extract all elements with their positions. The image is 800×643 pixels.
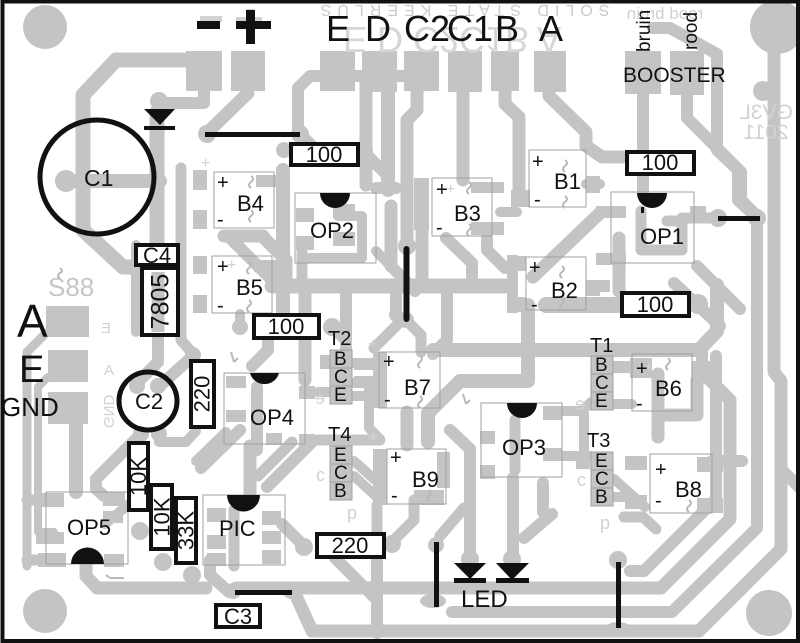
- pad B3 left bar: [414, 178, 429, 230]
- pad connector C2: [404, 51, 439, 91]
- pad B8 left top: [625, 456, 647, 470]
- svg-text:c: c: [316, 465, 325, 485]
- svg-text:BOOSTER: BOOSTER: [623, 64, 726, 87]
- pad T3 E left: [576, 456, 590, 469]
- pad line1 right: [291, 125, 309, 143]
- pad B9 bottom: [414, 490, 444, 505]
- resistor 100 left: [254, 314, 319, 339]
- wire B9 to LED vertical: [450, 430, 470, 550]
- wire pad C1 down: [457, 91, 470, 180]
- outline T4 E box: [330, 446, 352, 464]
- wire vline pad elbow: [406, 320, 421, 352]
- svg-text:E: E: [101, 320, 111, 337]
- outline B7: [379, 352, 440, 408]
- svg-text:A: A: [17, 295, 48, 347]
- squiggle arrow OP4: [231, 352, 238, 362]
- svg-text:B6: B6: [655, 376, 682, 401]
- svg-text:A: A: [104, 362, 114, 379]
- pad B1 right: [586, 176, 600, 193]
- svg-text:B9: B9: [412, 467, 439, 492]
- wire OP3 inside vertical: [510, 420, 521, 470]
- svg-text:B8: B8: [675, 477, 702, 502]
- squiggle B9: [427, 490, 431, 502]
- wire 100L pad diag: [334, 329, 345, 340]
- wire black line C3: [235, 590, 292, 595]
- wire OP3 tr horizontal: [548, 406, 582, 416]
- pad C2 top1: [129, 378, 145, 394]
- svg-text:-: -: [531, 294, 538, 316]
- pad booster rood: [670, 51, 704, 95]
- svg-text:7805: 7805: [147, 274, 175, 330]
- wire B4 diag to B5 right: [263, 237, 286, 284]
- pad 220h right: [383, 535, 401, 553]
- svg-text:+: +: [636, 358, 648, 380]
- svg-text:+: +: [201, 155, 210, 172]
- wire OP2 SE diag 1: [391, 266, 415, 291]
- wire plus pad to pad diag: [209, 93, 248, 131]
- wire under E pad down: [360, 80, 373, 185]
- svg-text:B: B: [595, 487, 608, 508]
- svg-text:C1: C1: [447, 8, 493, 49]
- wire OP2 G inner: [310, 216, 362, 258]
- pad OP1 left bottom: [596, 253, 626, 265]
- pad connector minus: [186, 51, 222, 91]
- pad terminal A: [46, 306, 89, 337]
- pad connector plus: [231, 51, 265, 91]
- svg-text:E: E: [19, 349, 44, 391]
- svg-text:e: e: [575, 394, 585, 414]
- resistor 33K: [174, 498, 199, 563]
- wire B5 bottom stub: [235, 314, 245, 326]
- svg-text:+: +: [217, 256, 229, 278]
- wire OP2 right vertical: [385, 206, 398, 266]
- wire B3 to mid: [446, 238, 472, 276]
- wire black vline LED1: [434, 542, 439, 607]
- svg-text:B5: B5: [236, 275, 263, 300]
- outline OP5: [46, 492, 128, 564]
- outline T2 C box: [330, 368, 352, 386]
- wire OP1 SE diag: [674, 283, 720, 326]
- outline B2: [526, 257, 586, 310]
- pad OP1 below left: [596, 280, 610, 292]
- svg-text:OP2: OP2: [310, 218, 354, 243]
- squiggle B4: [249, 176, 253, 188]
- wire D pad down to OP2: [381, 91, 395, 190]
- svg-text:T4: T4: [328, 424, 351, 446]
- pad OP4 left col: [226, 376, 246, 388]
- pad 220h left: [295, 538, 313, 556]
- squiggle B6: [666, 358, 670, 370]
- resistor 10K first: [126, 443, 151, 510]
- wire pad A down: [549, 91, 622, 157]
- svg-text:B7: B7: [404, 375, 431, 400]
- wire top-right elbow: [653, 28, 755, 216]
- svg-text:-: -: [436, 217, 443, 239]
- svg-text:100: 100: [642, 150, 679, 175]
- wire bruin down: [637, 94, 649, 150]
- svg-text:33K: 33K: [174, 511, 199, 550]
- wire pad B down: [505, 91, 519, 190]
- pad line1 left: [198, 125, 216, 143]
- wire rail A branch top: [27, 495, 54, 506]
- pad B4 left bottom: [193, 210, 207, 229]
- wire T1 to B6 bottom: [613, 399, 632, 409]
- svg-text:C4: C4: [143, 243, 171, 268]
- opto OP5: [71, 548, 104, 565]
- wire B7 left vertical: [401, 412, 414, 445]
- outline OP4: [224, 373, 305, 444]
- pad booster bruin: [625, 51, 661, 94]
- wire pad C2 down: [407, 91, 417, 238]
- wire B4B5 vertical: [276, 170, 290, 317]
- pad 100L right: [323, 318, 341, 336]
- wire B6 inside U: [658, 380, 697, 415]
- capacitor C2: [119, 372, 177, 430]
- pad T1 col to B6: [612, 361, 632, 373]
- resistor 100 top-left: [291, 142, 358, 167]
- svg-text:OP5: OP5: [67, 515, 111, 540]
- svg-text:OP4: OP4: [250, 405, 294, 430]
- pad B2 right: [586, 280, 600, 296]
- pad OP4 right col: [299, 386, 315, 399]
- wire OP4 down to PIC: [244, 446, 257, 497]
- wire 220h right pad up: [394, 500, 414, 540]
- wire right bundle strand5: [782, 470, 800, 488]
- svg-text:c: c: [577, 470, 586, 490]
- svg-text:C2: C2: [404, 8, 450, 49]
- pad B6 plus: [630, 358, 652, 378]
- pad B4 right top: [256, 175, 286, 187]
- pad C2 bot1: [133, 426, 149, 442]
- wire top-left long: [83, 60, 199, 267]
- svg-text:+: +: [655, 459, 667, 481]
- wire OP3 right to T3: [548, 451, 590, 461]
- pad T2 right col: [354, 358, 378, 370]
- svg-text:PIC: PIC: [219, 516, 256, 541]
- diode D1: [144, 109, 175, 125]
- wire B3 left bar down: [416, 230, 429, 286]
- squiggle B5: [247, 262, 251, 274]
- wire B2 bottom strip: [546, 297, 618, 313]
- pad B5 left top: [193, 256, 207, 274]
- wire 220h bottom vertical: [371, 557, 383, 633]
- pad C1 left: [55, 170, 77, 192]
- wire C1 horizontal: [66, 174, 160, 188]
- wire C2 bottom left diag: [96, 434, 141, 496]
- pad OP1 left top: [596, 206, 626, 218]
- wire PIC inside vertical: [229, 510, 240, 566]
- pad OP2 right col: [333, 204, 355, 218]
- pad connector A: [534, 51, 566, 92]
- outline B1: [529, 150, 586, 207]
- wire T4 C to B9 diag: [354, 476, 378, 498]
- wire OP1 to B2 diag: [533, 213, 600, 277]
- pad connector B: [491, 51, 519, 91]
- svg-text:OP3: OP3: [502, 435, 546, 460]
- svg-text:T2: T2: [328, 328, 351, 350]
- wire T1 to B6 top: [613, 361, 632, 371]
- wire T2 B to B7: [352, 358, 374, 368]
- wire S-curve to B9: [428, 305, 528, 442]
- svg-text:S88: S88: [48, 272, 94, 302]
- pad T2 B left: [320, 355, 332, 369]
- outline T3 E box: [591, 452, 613, 470]
- svg-text:D: D: [365, 8, 391, 49]
- opto OP2: [320, 193, 350, 208]
- svg-text:B1: B1: [554, 169, 581, 194]
- pad C3 right: [283, 583, 299, 599]
- wire rail B: [38, 377, 54, 532]
- svg-text:A: A: [539, 8, 563, 49]
- svg-text:+: +: [436, 179, 448, 201]
- outline OP3: [481, 403, 562, 477]
- svg-text:GND: GND: [100, 395, 117, 429]
- svg-text:T3: T3: [587, 430, 610, 452]
- wire C2 bottom right: [159, 431, 196, 442]
- opto OP3: [507, 403, 537, 418]
- outline T1 B box: [591, 356, 613, 374]
- regulator 7805: [142, 268, 178, 335]
- opto OP4: [250, 373, 279, 384]
- wire T4 E to B9 diag: [354, 461, 374, 479]
- pad OP1 right: [690, 206, 706, 219]
- pad line2 left: [709, 209, 727, 227]
- wire left of C4 vertical: [131, 245, 141, 332]
- wire 100R pad stub: [689, 298, 700, 310]
- svg-text:e: e: [315, 388, 325, 408]
- wire B4 inner diag: [232, 240, 258, 266]
- wire OP2 SE diag 2: [376, 251, 404, 280]
- wire T3 to B8 diag: [614, 479, 645, 507]
- svg-text:C3: C3: [224, 604, 252, 629]
- wire LED vertical 2: [537, 483, 549, 512]
- svg-text:OP1: OP1: [640, 224, 684, 249]
- pad 100R right: [688, 294, 708, 314]
- pad line2 right: [748, 209, 766, 227]
- wire PIC to C3 left: [210, 560, 229, 592]
- pad LED line1 top: [428, 537, 444, 553]
- wire LED diag: [524, 514, 552, 538]
- wire bottom horizontal west: [86, 556, 206, 588]
- wire rood down: [687, 95, 757, 216]
- outline T2 E box: [330, 386, 352, 404]
- svg-text:100: 100: [637, 292, 674, 317]
- wire B9 bar to 220h pad: [377, 505, 390, 545]
- svg-text:C2: C2: [135, 389, 163, 414]
- squiggle arrow OP5: [106, 575, 124, 578]
- outline B9: [387, 449, 446, 504]
- resistor 220 horizontal: [317, 533, 384, 558]
- outline T4 B box: [330, 482, 352, 500]
- pad OP3 left col: [480, 431, 495, 444]
- pad LED1 top: [461, 550, 479, 568]
- pad B9 right bar: [437, 452, 450, 488]
- pad LED line2 top: [609, 551, 627, 569]
- wire chevron B5: [258, 265, 283, 278]
- pad B5 right top: [254, 260, 284, 272]
- pad C3 left: [225, 583, 241, 599]
- outline T4 C box: [330, 464, 352, 482]
- svg-text:B2: B2: [551, 278, 578, 303]
- capacitor C1: [40, 120, 154, 234]
- svg-text:10K: 10K: [150, 497, 175, 536]
- pad 10K1 bottom: [131, 522, 149, 540]
- pad PIC left col: [207, 508, 226, 522]
- svg-text:B: B: [495, 8, 519, 49]
- wire horizontal lower: [433, 285, 717, 350]
- wire diode vertical: [150, 112, 165, 250]
- pad B8 left bottom: [625, 495, 647, 509]
- wire B8 lower U: [624, 517, 656, 529]
- wire B1 pad to OP1: [586, 179, 600, 189]
- svg-text:E: E: [595, 391, 608, 412]
- sign minus: [197, 21, 220, 29]
- wire 10K1 to OP5 diag: [105, 500, 134, 524]
- pad C2 bot2: [151, 426, 167, 442]
- outline B6: [632, 354, 692, 411]
- wire OP2 bottom stub: [297, 252, 308, 286]
- wire right bundle strand3: [452, 226, 757, 612]
- svg-text:220: 220: [332, 533, 369, 558]
- wire 220h pad diag: [282, 524, 304, 546]
- wire OP1 G spiral: [641, 211, 682, 250]
- wire OP2 right horizontal: [376, 182, 396, 194]
- pad connector C1: [448, 51, 482, 92]
- wire OP4 SW diag 2: [196, 432, 226, 461]
- wire OP4 SW diag 1: [201, 430, 240, 468]
- squiggle B8: [687, 500, 691, 512]
- squiggle S88: [58, 268, 62, 278]
- outline OP1: [611, 192, 694, 263]
- svg-text:+: +: [532, 151, 544, 173]
- svg-text:B: B: [334, 481, 347, 502]
- wire OP4 inside vertical: [251, 387, 263, 450]
- pad OP2 left col: [296, 208, 314, 222]
- diode LED1: [454, 563, 486, 579]
- wire to LED line1 pad: [440, 508, 464, 536]
- pad 100TL right: [357, 143, 373, 159]
- outline T1 E box: [591, 392, 613, 410]
- wire T2 E to B7: [352, 391, 374, 401]
- pad PIC right col: [262, 511, 281, 525]
- squiggle B2: [560, 266, 564, 278]
- outline B3: [432, 178, 492, 236]
- pad LED line2 bottom: [605, 622, 631, 636]
- wire pad to 100 box diag: [302, 136, 320, 154]
- outline PIC: [203, 495, 285, 565]
- svg-text:p: p: [347, 503, 357, 523]
- wire down to T3 E pad: [579, 413, 589, 452]
- squiggle arrow OP3: [463, 394, 470, 404]
- outline B4: [214, 172, 274, 228]
- svg-text:T1: T1: [590, 335, 613, 357]
- pad B7 left bar: [373, 352, 387, 408]
- wire B6 inside vertical: [652, 374, 665, 437]
- sign plus: [236, 21, 271, 29]
- mounting hole top-right: [750, 0, 800, 54]
- wire 220h bottom diag: [335, 558, 374, 597]
- svg-text:+: +: [383, 351, 395, 373]
- wire black line OP1: [718, 216, 760, 221]
- svg-text:B3: B3: [454, 201, 481, 226]
- wire 100TL to OP2 diag: [365, 153, 388, 176]
- capacitor C4: [136, 243, 178, 268]
- wire B3 right-bottom: [487, 238, 505, 268]
- outline T2 B box: [330, 350, 352, 368]
- squiggle B1: [563, 160, 567, 172]
- svg-text:rood: rood: [681, 12, 702, 50]
- wire B4 bottom horizontal: [224, 230, 263, 243]
- wire black vline LED2: [616, 562, 621, 628]
- pad terminal E: [48, 350, 88, 382]
- wire OP1 below: [613, 238, 626, 291]
- wire T3 to B8: [613, 492, 625, 502]
- resistor 100 top-right: [627, 150, 694, 175]
- wire 220v pad to C2: [163, 356, 193, 383]
- pad diode top: [150, 92, 168, 110]
- svg-text:B4: B4: [237, 191, 264, 216]
- svg-text:2011: 2011: [743, 121, 788, 144]
- svg-text:-: -: [391, 485, 398, 507]
- resistor 10K second: [150, 485, 175, 549]
- ghost plus minus: [200, 16, 222, 22]
- outline B8: [650, 454, 712, 513]
- wire black vline B3: [404, 249, 410, 319]
- pad OP5 left col: [36, 493, 64, 507]
- svg-text:+: +: [529, 257, 541, 279]
- pad C2 top2: [150, 378, 166, 394]
- outline T3 B box: [591, 488, 613, 506]
- pad B4 left top: [193, 170, 207, 190]
- wire GND down: [69, 424, 83, 492]
- wire 100L to OP4: [252, 340, 268, 366]
- wire OP4 pad to PIC diag 1: [267, 442, 312, 487]
- svg-text:E: E: [334, 385, 347, 406]
- capacitor C3: [216, 604, 260, 629]
- wire diode top horizontal: [159, 97, 204, 109]
- svg-text:-: -: [217, 295, 224, 317]
- wire B6 right up: [696, 352, 708, 370]
- svg-text:-: -: [534, 189, 541, 211]
- wire H286 down to OP4 right: [299, 290, 312, 380]
- wire B8 right: [712, 455, 742, 467]
- pad B6 right: [692, 361, 712, 376]
- svg-text:-: -: [636, 393, 643, 415]
- mounting hole bottom-right: [746, 590, 792, 636]
- svg-text:10K: 10K: [126, 457, 151, 496]
- diode LED2: [496, 563, 529, 580]
- svg-text:C1: C1: [84, 165, 113, 191]
- pad OP3 right col: [543, 406, 562, 420]
- wire left of B4 vertical: [181, 168, 193, 354]
- wire T2 C down elbow: [352, 383, 380, 439]
- mounting hole top-left: [23, 5, 67, 49]
- outline T1 C box: [591, 374, 613, 392]
- wire OP4 pad to PIC diag 2: [258, 442, 292, 476]
- svg-text:-: -: [655, 490, 662, 512]
- wire OP4 pad2 to B9: [318, 435, 380, 446]
- resistor 100 right: [622, 292, 689, 317]
- wire B3 pad to B1 pad: [500, 207, 517, 217]
- pad B3 right bottom: [471, 222, 504, 235]
- pad OP5 right col: [103, 492, 125, 506]
- wire OP1 SE diag2: [697, 266, 740, 309]
- wire H286 stub down: [390, 290, 402, 314]
- squiggle B7: [418, 356, 422, 368]
- wire pad up elbow right: [298, 76, 410, 130]
- pad B8 right: [697, 457, 723, 472]
- svg-text:LED: LED: [461, 586, 508, 613]
